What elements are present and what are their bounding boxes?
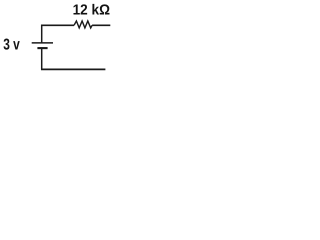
svg-text:3 v: 3 v: [3, 37, 20, 54]
wire bottom: [41, 68, 105, 70]
resistor R (zigzag): [74, 21, 92, 28]
svg-text:12 kΩ: 12 kΩ: [73, 3, 111, 19]
battery top lead wire: [41, 25, 43, 43]
wire top-right segment: [92, 24, 110, 26]
wire top-left segment: [41, 24, 74, 26]
battery bottom lead wire: [41, 48, 43, 69]
battery V1 long plate (+): [32, 42, 53, 44]
battery V1 short plate (−): [37, 47, 47, 49]
